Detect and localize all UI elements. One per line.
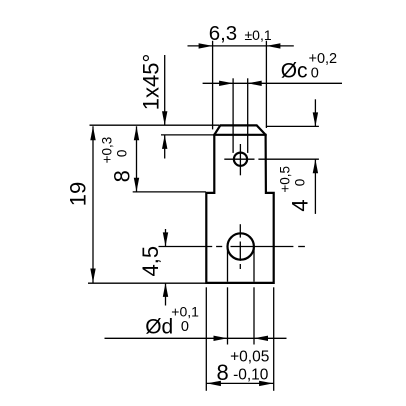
centerline bottom hole vertical (239, 224, 241, 237)
bottom edge extension line (88, 282, 206, 284)
svg-text:8: 8 (110, 170, 135, 182)
part outline (206, 125, 273, 283)
dim Oc extension line right (247, 78, 249, 153)
dim Od arrow right (254, 336, 268, 341)
svg-text:+0,3: +0,3 (100, 137, 115, 164)
svg-text:Øc: Øc (281, 60, 308, 83)
svg-text:19: 19 (66, 182, 91, 206)
dim Od line (105, 337, 287, 339)
svg-text:0: 0 (181, 319, 189, 335)
dim 4 lower line (314, 159, 316, 214)
svg-text:-0,10: -0,10 (233, 367, 269, 384)
dim 4,5 lower line (165, 283, 167, 306)
svg-text:+0,1: +0,1 (171, 304, 199, 320)
svg-text:+0,2: +0,2 (309, 51, 338, 67)
dim 8 bottom arrow left (207, 381, 221, 386)
extension line hole d left inside part (227, 247, 229, 282)
dim 8 bottom line (206, 382, 273, 384)
dim 4 text block (278, 166, 313, 212)
hole c (top small hole) (234, 153, 247, 166)
dim 8 arrow top (134, 126, 139, 140)
dim Od arrow left (214, 336, 228, 341)
dim 4 upper line (314, 99, 316, 126)
chamfer extension line (161, 134, 214, 136)
svg-text:±0,1: ±0,1 (245, 27, 272, 43)
extension line body left below part (205, 287, 207, 391)
svg-text:0: 0 (115, 150, 130, 158)
chamfer dim arrow up (162, 135, 167, 149)
svg-text:1x45°: 1x45° (138, 54, 163, 111)
dim 6,3 line (188, 45, 294, 47)
svg-text:4,5: 4,5 (138, 246, 163, 277)
svg-text:+0,05: +0,05 (230, 349, 269, 366)
centerline bottom hole horizontal (159, 246, 213, 248)
top edge extension line (90, 124, 220, 126)
extension line hole d right below part (253, 287, 255, 344)
svg-text:+0,5: +0,5 (278, 166, 293, 193)
dim Oc arrow right (248, 81, 262, 86)
dim 6,3 extension line left (212, 41, 214, 130)
svg-text:0: 0 (311, 66, 319, 82)
svg-text:4: 4 (288, 199, 313, 211)
dim 8 bottom arrow right (259, 381, 273, 386)
dim 8 arrow bottom (134, 178, 139, 192)
dim Oc extension line left (232, 78, 234, 153)
dim 8 step extension line (133, 191, 206, 193)
dim Oc arrow left (219, 81, 233, 86)
dim 4 arrow up (313, 159, 318, 173)
dim 4 arrow down (313, 112, 318, 126)
extension line body right below part (273, 287, 275, 391)
centerline top hole vertical (239, 144, 241, 175)
dim 8 text block (100, 137, 135, 183)
dim 6,3 arrow right (266, 43, 280, 48)
svg-text:6,3: 6,3 (209, 22, 238, 45)
chamfer dim arrow down (162, 111, 167, 125)
extension line from hole c center to dim 4 (258, 158, 319, 160)
dim 4,5 arrow down (163, 232, 168, 246)
hole d (bottom large hole) (228, 233, 254, 259)
dim 8 line (136, 126, 138, 192)
extension line hole d right inside part (253, 247, 255, 282)
dim 4,5 arrow up (163, 283, 168, 297)
dim 6,3 arrow left (199, 43, 213, 48)
chamfer edge line (213, 134, 266, 136)
svg-text:0: 0 (293, 179, 308, 187)
dim 4,5 upper line (165, 229, 167, 246)
dim 4 extension line (top right) (266, 125, 319, 127)
dim Oc line (203, 82, 342, 84)
centerline top hole horizontal (224, 158, 254, 160)
dim 6,3 extension line right (265, 41, 267, 128)
dim 19 line (92, 126, 94, 282)
chamfer dim 1x45 lower line (164, 135, 166, 159)
chamfer dim 1x45 upper line (164, 55, 166, 125)
svg-text:Ød: Ød (145, 316, 173, 339)
svg-text:8: 8 (217, 360, 229, 385)
dim 19 arrow top (90, 126, 95, 140)
extension line hole d left below part (227, 287, 229, 344)
dim 19 arrow bottom (90, 269, 95, 283)
